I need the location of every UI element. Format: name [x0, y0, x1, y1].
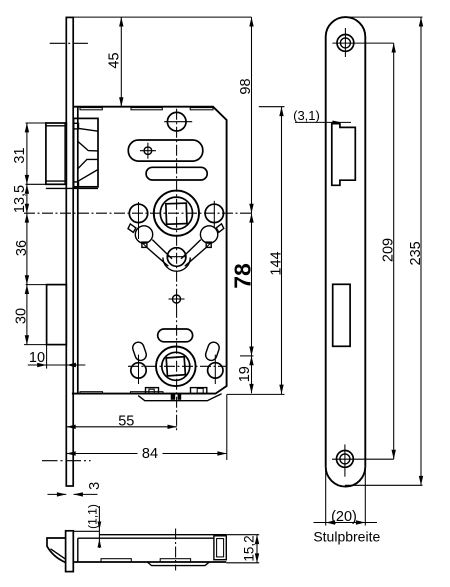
dim 15,2 line: [256, 535, 258, 563]
bottom flange lip: [138, 394, 221, 401]
dim 235 bottom extension: [345, 484, 423, 486]
svg-text:235: 235: [408, 241, 424, 265]
lower follower inner circle: [162, 352, 190, 380]
claw right square: [206, 242, 211, 247]
svg-text:55: 55: [118, 413, 134, 429]
lower right foot: [191, 388, 207, 394]
svg-text:84: 84: [142, 446, 158, 462]
svg-text:13,5: 13,5: [12, 185, 28, 213]
claw bottom arc: [163, 258, 190, 272]
dim 19 line: [251, 356, 253, 393]
dim (1,1) leader: [98, 506, 100, 548]
latch box inner lines: [79, 128, 99, 131]
lower left post circle: [131, 363, 146, 378]
bottom view case bottom edge: [73, 561, 226, 563]
slot1 screw crosshair: [140, 150, 156, 152]
bottom view case top line 1: [99, 534, 226, 536]
bottom view latch wedge: [47, 538, 66, 563]
top screw inner: [340, 38, 350, 48]
svg-text:45: 45: [107, 52, 123, 68]
bottom nibs: [171, 394, 176, 400]
slot 2 rounded: [146, 167, 207, 180]
claw band left inner: [152, 240, 172, 259]
bottom edge tab 1: [80, 392, 103, 394]
bottom view tabs: [101, 559, 131, 562]
deadbolt front face extension: [46, 345, 48, 369]
svg-text:30: 30: [14, 308, 30, 324]
slot 1 rounded: [128, 140, 203, 161]
center rivet circle: [173, 295, 181, 303]
dim 144 top extension: [259, 106, 285, 108]
top edge tab 2: [131, 108, 162, 110]
claw right lobe: [200, 226, 217, 243]
deadbolt side view: [47, 285, 67, 345]
lower follower horizontal centerline: [128, 365, 228, 367]
claw band left outer: [147, 247, 169, 266]
svg-text:31: 31: [12, 147, 28, 163]
svg-text:(20): (20): [331, 509, 357, 525]
left extension lines: [26, 122, 47, 124]
bottom edge tab 2: [131, 392, 164, 394]
lock case outline: [72, 107, 227, 394]
faceplate side view bar: [66, 17, 73, 486]
left dim line 31/13.5/36/30: [26, 123, 28, 345]
lower left foot: [146, 388, 159, 394]
claw right wing: [216, 224, 224, 233]
svg-text:98: 98: [238, 78, 254, 94]
top screw centerline side: [50, 42, 88, 44]
lower right hook: [204, 341, 221, 362]
deadbolt cutout: [333, 284, 350, 346]
top edge tab 1: [80, 108, 102, 110]
lower follower outer circle: [156, 347, 196, 387]
bottom view case left wall: [77, 538, 79, 562]
top hole circle: [167, 112, 186, 131]
svg-text:209: 209: [381, 238, 397, 262]
claw left wing: [128, 224, 136, 233]
svg-text:Stulpbreite: Stulpbreite: [313, 529, 380, 545]
faceplate bottom arc: [326, 467, 366, 487]
claw bottom circle centerline: [167, 256, 186, 258]
slot1 screw circle: [144, 147, 152, 155]
bottom view end cap: [214, 536, 226, 560]
svg-text:(3,1): (3,1): [293, 108, 320, 123]
lower slot rounded: [158, 329, 193, 342]
latch box bottom square: [74, 182, 79, 188]
bottom screw inner: [340, 454, 350, 464]
bottom view case top line 2: [78, 537, 214, 539]
top screw outer: [337, 35, 354, 52]
top edge tab 3: [190, 108, 213, 110]
upper follower horizontal centerline: [24, 212, 253, 214]
bottom view faceplate top extension: [73, 530, 99, 532]
faceplate front view outline: [326, 17, 366, 467]
bottom screw centerline side: [42, 460, 91, 462]
dim 55 line: [66, 426, 177, 428]
lock case left edge: [77, 107, 79, 394]
dim 84 line: [66, 453, 137, 455]
bottom view centerline: [175, 529, 177, 571]
svg-text:(1,1): (1,1): [86, 504, 100, 529]
svg-text:78: 78: [230, 263, 256, 289]
lower follower square: [166, 357, 185, 376]
svg-text:15,2: 15,2: [242, 535, 257, 561]
upper right post vertical: [213, 201, 215, 227]
faceplate top extension: [347, 16, 423, 18]
upper left post circle: [129, 204, 147, 222]
dim 3 lines: [48, 493, 67, 495]
latch box top square: [74, 123, 79, 129]
dim 235 line: [420, 17, 422, 485]
claw band right outer: [185, 247, 207, 266]
upper follower square: [166, 203, 187, 224]
dim 15,2 arrows: [255, 535, 259, 544]
svg-text:36: 36: [14, 240, 30, 256]
claw band right inner: [181, 240, 201, 259]
upper left post vertical: [138, 202, 140, 239]
dim 84 right extension: [226, 395, 228, 461]
center rivet crosshair: [169, 298, 185, 300]
dim 45 line: [120, 17, 122, 107]
dim (20) line: [314, 522, 378, 524]
top screw crosshair + 209 connector: [332, 42, 393, 44]
claw left lobe: [135, 226, 152, 243]
lower left hook: [131, 341, 148, 362]
latch cutout: [332, 124, 356, 186]
svg-text:10: 10: [29, 350, 45, 366]
dim 10 line: [28, 364, 86, 366]
dim (20) extensions: [325, 467, 327, 526]
upper right post circle: [205, 204, 223, 222]
latch guide box: [74, 118, 98, 186]
svg-text:3: 3: [87, 482, 103, 490]
claw left square: [142, 242, 147, 247]
upper follower outer circle: [154, 191, 199, 236]
top hole crosshair: [164, 121, 192, 123]
svg-text:19: 19: [237, 366, 253, 382]
bottom screw crosshair + 209 connector: [332, 458, 394, 460]
vertical centerline: [176, 109, 178, 431]
bottom view faceplate section: [66, 531, 74, 572]
dim 19 extension: [240, 355, 254, 357]
latch assembly bottom line: [46, 187, 98, 189]
bottom view tray below: [147, 562, 209, 566]
dim 209 line: [393, 43, 395, 459]
claw bottom circle: [167, 248, 186, 267]
svg-text:144: 144: [269, 251, 285, 275]
(3,1) leader: [295, 121, 351, 123]
lower right post circle: [208, 363, 223, 378]
latch bolt head side view: [46, 123, 66, 184]
bottom screw outer: [337, 451, 354, 468]
top reference extension line: [73, 16, 251, 18]
dim 144 line: [281, 107, 283, 394]
dim 144 bottom extension: [227, 393, 285, 395]
upper follower inner circle: [160, 197, 192, 229]
dim 98 line: [251, 17, 253, 213]
dim 78 line: [251, 213, 253, 356]
